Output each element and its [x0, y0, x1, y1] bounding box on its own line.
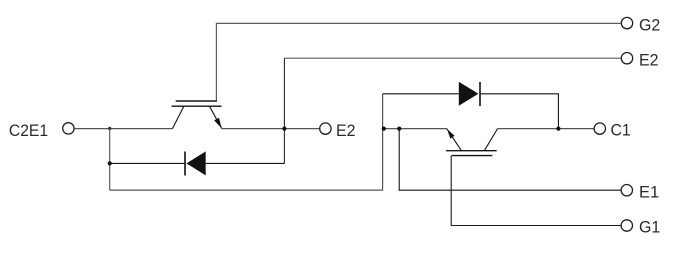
svg-text:G2: G2 [639, 17, 660, 35]
terminal E2 top [621, 53, 632, 64]
wire G2 horizontal [216, 23, 620, 101]
wire diode D1 right [480, 94, 558, 129]
wire diode D1 left [383, 93, 459, 95]
wire bypass bottom [110, 94, 383, 190]
wire right rail to C1 [498, 128, 594, 130]
wire E2 vertical [283, 58, 285, 163]
wire G1 [451, 156, 621, 226]
arrowhead Q2 emitter [214, 118, 222, 129]
wire right rail left part [383, 128, 447, 130]
junction dot E2 node [282, 127, 286, 131]
svg-text:C1: C1 [611, 121, 631, 139]
junction dot C1 node [556, 127, 560, 131]
wire C2E1 rail [75, 128, 173, 130]
transistor Q2 (left IGBT) [172, 101, 222, 129]
terminal E2 left section [320, 123, 331, 134]
terminal G1 [621, 220, 632, 231]
transistor Q1 (right IGBT) [446, 129, 498, 156]
terminal G2 [621, 17, 632, 28]
svg-text:E2: E2 [336, 122, 356, 140]
wire E2 horizontal [284, 57, 620, 59]
wire diode D2 left [110, 162, 185, 164]
junction dot D2 cathode node [108, 161, 112, 165]
wire rail to E2 [222, 128, 319, 130]
junction dot A (C2E1 node) [108, 127, 111, 130]
diode D1 (right, pointing right) [459, 82, 480, 106]
svg-text:E2: E2 [639, 52, 659, 70]
wire E1 [399, 129, 621, 191]
svg-text:C2E1: C2E1 [9, 122, 48, 140]
svg-text:E1: E1 [639, 184, 659, 202]
terminal C1 [594, 123, 605, 134]
junction dot E1 node [397, 127, 401, 131]
junction dot right rail left [382, 127, 386, 131]
wire left vertical [109, 129, 111, 191]
terminal C2E1 [63, 123, 74, 134]
arrowhead Q1 emitter [447, 129, 455, 139]
terminal E1 [621, 185, 632, 196]
svg-text:G1: G1 [639, 219, 660, 237]
wire diode D2 right [206, 162, 285, 164]
diode D2 (left, pointing left) [185, 151, 206, 175]
